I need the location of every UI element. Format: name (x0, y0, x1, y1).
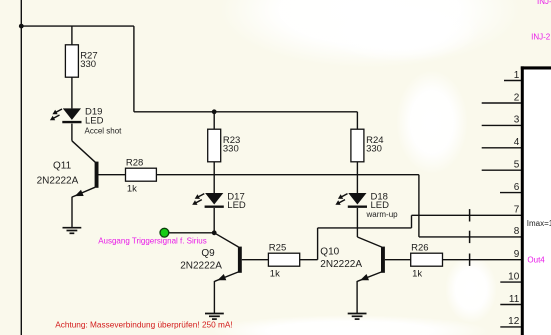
wire Q10 collector diagonal (357, 237, 381, 247)
ground GND under Q9 (205, 314, 224, 320)
connector pin 11 stub (500, 304, 521, 306)
wire pin7 horizontal 1 (318, 227, 412, 229)
wire pin8 vertical (418, 175, 420, 237)
svg-text:Q9: Q9 (201, 248, 215, 259)
connector pin 10 stub (500, 281, 521, 283)
transistor Q9 (238, 247, 242, 273)
connector pin 6 stub (500, 192, 521, 194)
tick on pin7 wire (469, 209, 471, 221)
junction node rail / R23 (212, 109, 217, 114)
wire Q9 emitter diagonal (215, 272, 239, 281)
svg-text:Out4: Out4 (527, 256, 545, 265)
resistor R27 (65, 45, 78, 77)
wire Q9 base lead (242, 259, 269, 261)
wire pin7 vertical 1 (317, 228, 319, 260)
svg-text:R26: R26 (411, 242, 428, 253)
Q10 emitter arrow (360, 274, 369, 280)
wire R27 to D19 (71, 77, 73, 108)
svg-text:9: 9 (514, 249, 520, 260)
connector pin 3 stub (482, 124, 521, 126)
resistor R26 (411, 253, 443, 266)
LED D17 (192, 193, 224, 207)
svg-text:Q11: Q11 (53, 160, 72, 171)
wire LED supply rail (134, 111, 358, 113)
svg-text:330: 330 (366, 144, 382, 155)
wire Q11 emitter diagonal (72, 187, 95, 197)
svg-text:3: 3 (514, 115, 520, 126)
wire Q9 collector diagonal (214, 233, 238, 247)
svg-text:330: 330 (223, 144, 239, 155)
wire R27 top lead (71, 26, 73, 45)
wire top horizontal (21, 25, 134, 27)
svg-text:10: 10 (508, 271, 520, 282)
svg-text:7: 7 (514, 205, 520, 216)
svg-text:INJ-1: INJ-1 (537, 0, 551, 6)
wire rail to R24 (356, 112, 358, 129)
wire left vertical bus (20, 0, 22, 335)
wire R23 to D17 (213, 162, 215, 193)
svg-text:11: 11 (509, 294, 520, 305)
wire trigger node to green dot (169, 232, 214, 234)
wire Q10 base lead (385, 259, 411, 261)
resistor R25 (268, 253, 299, 266)
svg-text:1k: 1k (127, 184, 137, 195)
connector pin 4 stub (482, 147, 521, 149)
svg-text:warm-up: warm-up (366, 210, 399, 219)
connector pin 1 stub (504, 80, 521, 82)
wire R26 to pin9 (443, 259, 522, 261)
svg-text:Accel shot: Accel shot (85, 127, 123, 136)
wire pin7 vertical 2 (411, 215, 413, 228)
svg-text:4: 4 (514, 137, 520, 148)
tick on pin9 wire (469, 254, 471, 266)
svg-text:2N2222A: 2N2222A (180, 261, 222, 272)
Q9 emitter arrow (217, 274, 226, 280)
wire Q10 emitter diagonal (357, 272, 381, 281)
transistor Q11 (95, 162, 99, 188)
junction node D17 / Q9 collector / trigger (212, 230, 217, 235)
resistor R28 (126, 168, 157, 181)
wire pin8 horizontal (419, 236, 521, 238)
svg-text:2N2222A: 2N2222A (37, 176, 79, 187)
svg-text:R28: R28 (126, 157, 143, 168)
svg-text:5: 5 (514, 160, 520, 171)
wire vertical to LED rail (133, 26, 135, 112)
junction node left bus / top rail (19, 24, 24, 29)
wire Q11 collector diagonal (72, 141, 95, 162)
svg-text:Q10: Q10 (320, 247, 339, 258)
svg-text:Ausgang Triggersignal f. Siriu: Ausgang Triggersignal f. Sirius (98, 236, 207, 245)
svg-text:1k: 1k (270, 269, 280, 280)
svg-text:Achtung: Masseverbindung überp: Achtung: Masseverbindung überprüfen! 250… (55, 320, 232, 329)
svg-text:R25: R25 (269, 242, 286, 253)
svg-text:Imax=1: Imax=1 (527, 219, 551, 228)
svg-text:12: 12 (508, 316, 520, 327)
connector pin 12 stub (500, 326, 521, 328)
wire Q9 emitter vertical (213, 281, 215, 314)
wire D19 cathode down (71, 124, 73, 141)
tick on pin8 wire (469, 231, 471, 243)
wire D18 cathode down (356, 208, 358, 237)
connector pin 2 stub (482, 102, 521, 104)
svg-text:INJ-2: INJ-2 (531, 33, 551, 42)
Q11 emitter arrow (75, 190, 84, 196)
node trigger test point (green) (160, 228, 169, 237)
resistor R23 (208, 129, 221, 162)
transistor Q10 (381, 247, 385, 273)
svg-text:1k: 1k (412, 269, 422, 280)
wire Q11 emitter vertical (71, 197, 73, 228)
svg-text:1: 1 (514, 70, 520, 81)
LED D19 (50, 108, 82, 122)
svg-text:2: 2 (514, 92, 520, 103)
wire Q11 base lead (99, 174, 126, 176)
wire rail to R23 (213, 112, 215, 129)
ground GND under Q10 (348, 314, 367, 320)
ground GND under Q11 (63, 228, 82, 234)
svg-text:LED: LED (227, 200, 246, 211)
wire R24 to D18 (356, 162, 358, 193)
LED D18 (335, 193, 367, 207)
svg-text:6: 6 (514, 182, 520, 193)
svg-text:330: 330 (80, 59, 96, 70)
svg-text:LED: LED (85, 116, 104, 127)
wire Q10 emitter vertical (356, 281, 358, 314)
wire R28 to pin8 horizontal (156, 174, 419, 176)
wire D17 cathode down (213, 208, 215, 233)
wire R25 to corner (300, 259, 318, 261)
connector body (521, 66, 551, 335)
svg-text:2N2222A: 2N2222A (320, 259, 362, 270)
connector pin 5 stub (482, 169, 521, 171)
wire pin7 horizontal 2 (412, 214, 522, 216)
resistor R24 (351, 129, 364, 162)
svg-text:8: 8 (514, 226, 520, 237)
